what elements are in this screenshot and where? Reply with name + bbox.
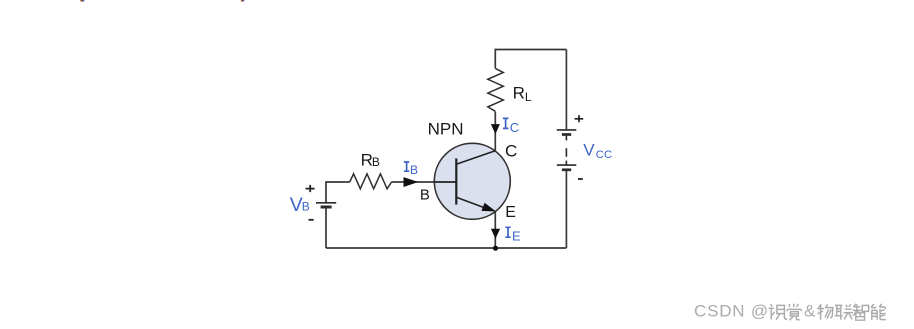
battery VCC (557, 130, 577, 170)
svg-text:R: R (513, 84, 525, 103)
svg-text:C: C (510, 120, 519, 135)
wire: RB to transistor base (392, 181, 457, 183)
svg-text:C: C (505, 141, 517, 160)
label IC (503, 118, 519, 135)
watermark glyph 觉 (787, 304, 801, 321)
svg-text:V: V (583, 141, 595, 160)
watermark glyph 视 (769, 304, 788, 319)
watermark glyph 联 (835, 304, 853, 319)
transistor Q1 NPN (434, 143, 511, 219)
polarity - of VCC (578, 178, 583, 180)
label RB (361, 150, 380, 169)
svg-text:B: B (372, 155, 380, 169)
junction node at emitter/bottom rail (493, 246, 498, 251)
label VCC (583, 141, 612, 161)
wire: VB positive terminal up and right to RB (326, 182, 350, 202)
wire: collector up to RL (494, 112, 496, 151)
label IB (404, 162, 418, 177)
polarity + of VCC (575, 115, 584, 122)
label RL (513, 84, 532, 104)
wire: VB negative terminal down to bottom rail (325, 208, 327, 248)
current arrow IC (491, 124, 500, 134)
svg-text:B: B (420, 186, 430, 203)
resistor RL (488, 68, 504, 111)
svg-text:&: & (804, 302, 816, 321)
svg-text:B: B (410, 163, 418, 177)
polarity - of VB (309, 219, 314, 221)
wire: right rail down to VCC (565, 50, 567, 130)
wire: VCC negative down to bottom rail (565, 171, 567, 248)
svg-text:E: E (512, 229, 521, 244)
watermark glyph 能 (871, 304, 886, 320)
wire: RL top to top rail corner (495, 50, 566, 69)
top edge artifact dot 2 (241, 0, 245, 2)
svg-text:NPN: NPN (428, 119, 464, 138)
svg-text:L: L (525, 90, 532, 104)
svg-text:B: B (302, 200, 310, 214)
svg-text:CSDN @: CSDN @ (694, 302, 769, 321)
resistor RB (350, 174, 392, 189)
watermark glyph 智 (853, 304, 869, 320)
top edge artifact dot 1 (80, 0, 85, 2)
wire: emitter down to bottom rail (494, 211, 496, 248)
current arrow IE (491, 229, 500, 239)
svg-text:CC: CC (596, 149, 612, 161)
battery VB (316, 203, 336, 207)
svg-text:E: E (505, 204, 516, 221)
wire: bottom rail (326, 247, 566, 249)
watermark glyph 物 (817, 304, 833, 319)
label VB (290, 194, 310, 216)
polarity + of VB (306, 185, 315, 192)
label IE (505, 227, 521, 244)
current arrow IB (404, 177, 419, 187)
watermark CSDN (694, 302, 816, 322)
